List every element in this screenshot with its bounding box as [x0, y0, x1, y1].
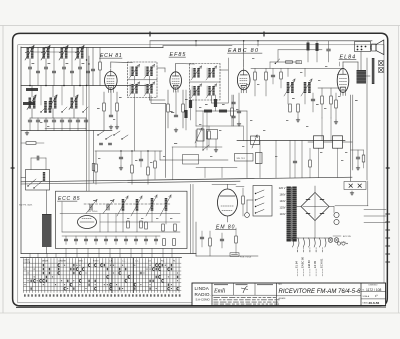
coil L6 oscillator: [50, 98, 53, 109]
resistor R8 under ECH81: [116, 103, 119, 111]
potentiometer P1 volume: [251, 136, 260, 145]
trimmer capacitor under L2: [44, 66, 47, 68]
svg-text:SW. FS. 302/1: SW. FS. 302/1: [19, 205, 33, 207]
switch box SW 75/1: [235, 154, 254, 162]
wire left vertical bus: [20, 47, 22, 254]
wire vertical x190 long: [190, 184, 192, 253]
resistor R29 top drop B: [316, 43, 319, 51]
wire dipole leads: [30, 158, 32, 170]
wire rail y88 right: [318, 87, 340, 89]
svg-text:EM 80: EM 80: [307, 260, 311, 268]
IF T1 winding: [146, 67, 148, 77]
wire IF1 internal links: [134, 76, 136, 84]
terminal box X right A: [379, 61, 384, 66]
resistor R27 y62: [286, 61, 293, 63]
border tick marks: [149, 32, 151, 37]
resistor R18: [289, 104, 292, 112]
resistor R21 dark horizontal: [204, 110, 212, 113]
svg-text:110V: 110V: [280, 212, 286, 216]
ratio detector coil La: [287, 82, 290, 93]
title underline rule: [277, 295, 362, 297]
bridge diode marks: [306, 199, 310, 201]
svg-text:26-6-56: 26-6-56: [369, 301, 380, 305]
terminal strip box: [344, 182, 366, 190]
resistor R3: [99, 62, 102, 70]
svg-text:160V: 160V: [279, 193, 285, 197]
wire EF85 anode to IF2: [175, 64, 177, 70]
mains transformer T4 secondary: [292, 187, 296, 242]
cluster pot x200: [197, 129, 204, 141]
svg-text:DISEGNO: DISEGNO: [369, 284, 378, 286]
speaker LS1: [372, 44, 377, 51]
wire bridge output down: [314, 221, 316, 239]
wire drop x318 x337 to chassis: [318, 148, 320, 177]
svg-text:FS. 75/9-6: FS. 75/9-6: [88, 211, 98, 213]
tube V5 ECC85: [78, 216, 97, 229]
wire rail y85: [21, 85, 152, 87]
wire chassis rail A: [21, 177, 352, 182]
terminal X pair: [349, 184, 352, 187]
capacitor C71 det: [271, 74, 274, 76]
IF T1 divider: [128, 79, 158, 81]
wire x207 vertical: [206, 111, 208, 150]
svg-text:ECC 85: ECC 85: [343, 236, 351, 238]
shield box mid right: [183, 155, 199, 165]
switch cluster mid: [98, 131, 104, 135]
switch contact marks: [43, 264, 44, 266]
contact pair L7: [83, 107, 88, 112]
wire rail y151: [95, 150, 162, 152]
coil L10 FM: [122, 199, 125, 211]
wire bridge output up: [314, 186, 316, 193]
mains transformer T4 primary: [287, 187, 291, 242]
svg-text:ECH 81: ECH 81: [319, 258, 323, 268]
svg-text:SW. 75/1: SW. 75/1: [237, 158, 246, 160]
wire drops AF: [246, 141, 248, 178]
resistor R62 EM80 area: [235, 236, 238, 243]
coil L7 oscillator: [71, 98, 74, 109]
value specks EF85: [170, 111, 173, 112]
wire transformer to bridge: [297, 206, 301, 208]
svg-text:125V: 125V: [279, 206, 285, 210]
wire rail y130: [21, 130, 112, 132]
wire IF2 out: [211, 96, 213, 104]
wire y150 stub: [351, 149, 364, 151]
padder capacitor: [36, 119, 39, 121]
resistor R45: [154, 161, 157, 168]
wire FM rail y222: [100, 221, 180, 223]
svg-text:220 V: 220 V: [279, 186, 286, 190]
capacitor column C21: [232, 101, 235, 103]
resistor R2: [23, 102, 35, 105]
ground EF85: [175, 128, 177, 130]
resistor R23: [208, 131, 211, 139]
capacitor C73: [293, 160, 296, 162]
ground under terminal box: [351, 191, 353, 193]
svg-text:AFFARE: AFFARE: [279, 297, 287, 300]
wire feedback vertical pair: [350, 95, 352, 181]
wire x270 stub: [269, 62, 271, 68]
terminal box X right B: [379, 68, 384, 73]
heater loops: [293, 238, 294, 247]
capacitor C62 EM80 area: [200, 236, 203, 238]
wire osc coil leads: [46, 190, 48, 214]
resistor R33 EL84 cathode: [335, 100, 338, 108]
wire jumpers between antenna coils: [33, 51, 43, 53]
output transformer T3 primary dark: [357, 70, 367, 84]
wire EABC grid vertical: [228, 58, 230, 103]
title block outline: [192, 283, 386, 306]
resistor R4 left column: [26, 142, 36, 145]
heater dashed leads: [297, 248, 299, 253]
resistor R54: [140, 221, 143, 228]
svg-text:RICEVITORE FM-AM 76/4-5-6: RICEVITORE FM-AM 76/4-5-6: [279, 289, 362, 295]
resistor R61 EM80: [209, 238, 212, 246]
padder capacitor: [60, 119, 63, 121]
wire vertical x190: [190, 90, 192, 120]
svg-text:C.C.: C.C.: [135, 260, 139, 262]
capacitor pair mid: [100, 142, 103, 144]
wire y184 extension: [212, 183, 236, 185]
small box B1: [207, 130, 218, 140]
svg-text:S.A-COMO: S.A-COMO: [196, 298, 211, 302]
padder capacitor: [52, 119, 55, 121]
transformer core lines: [290, 187, 292, 241]
wire x196 vertical: [195, 90, 197, 126]
title block header cells: [233, 283, 235, 295]
IF T1 winding: [146, 84, 148, 94]
second trimmer L3: [70, 70, 73, 72]
wire rail jog to B+: [162, 46, 164, 48]
coil L4 antenna: [77, 48, 80, 59]
IF T2 winding: [208, 68, 210, 78]
wire drops from top rail: [195, 41, 197, 46]
junction dots rail151: [120, 150, 121, 151]
stray specks right mid: [250, 119, 252, 122]
svg-text:EABC 80: EABC 80: [301, 256, 305, 268]
resistor R10 EF85 cathode: [167, 104, 170, 112]
wire FM verticals: [99, 214, 101, 233]
capacitor C61 EM80: [220, 238, 223, 240]
capacitor C5: [91, 68, 94, 70]
pilot lamps: [328, 238, 333, 243]
trimmer capacitor under L3: [62, 66, 65, 68]
resistor R19: [297, 104, 300, 112]
coil L5 oscillator: [29, 98, 32, 109]
svg-text:TIPO: TIPO: [278, 284, 283, 286]
resistor R1: [26, 88, 38, 91]
svg-text:140V: 140V: [279, 199, 285, 203]
wire EM80 area: [195, 222, 197, 256]
tuning gang C50: [89, 204, 91, 210]
scan page edge right: [398, 26, 400, 314]
ground C40: [120, 166, 122, 168]
sheet inner frame: [18, 45, 384, 303]
capacitor C40: [119, 156, 122, 158]
resistor R53: [127, 221, 130, 228]
IF T2 winding: [193, 86, 195, 96]
capacitor C60: [36, 156, 38, 160]
mains plug: [245, 213, 250, 218]
wire y160 link: [159, 151, 161, 160]
header micro labels: [214, 284, 228, 285]
resistor R51: [174, 224, 177, 231]
resistor R25 dark: [189, 100, 192, 108]
wire drops y167: [204, 168, 206, 178]
wire right edge vertical: [366, 58, 368, 180]
wire x203 vertical: [202, 111, 204, 150]
wire y147 right stub: [172, 146, 196, 148]
resistor R28 top drop A: [307, 43, 310, 51]
speck left col: [40, 121, 42, 124]
padder capacitor: [84, 119, 87, 121]
resistor R20 dark: [214, 99, 217, 107]
svg-text:SCALA: SCALA: [363, 295, 370, 298]
wire y143 left: [21, 142, 26, 144]
value specks ECH81: [119, 97, 122, 98]
coil L2 antenna: [43, 48, 46, 59]
value label near L3: [66, 63, 69, 64]
ground EABC80: [238, 122, 240, 124]
value specks EL84: [338, 95, 340, 98]
capacitor C41: [139, 158, 142, 160]
IF T2 winding: [193, 68, 195, 78]
value specks detector: [292, 98, 295, 99]
output transformer terminal box: [355, 42, 371, 52]
wire IF1 out to EF85: [149, 94, 151, 101]
coil dark left column: [44, 101, 47, 113]
switch bank horizontal rows: [24, 262, 182, 264]
ground detector: [297, 118, 299, 120]
sheet outer border: [13, 33, 388, 306]
wire mid verticals: [93, 131, 95, 184]
tube V2 EF85: [170, 72, 182, 89]
wire detector links: [287, 68, 289, 76]
wire x172 vertical: [172, 147, 174, 180]
wire ECH81 anode to IF1: [110, 62, 112, 68]
IF T1 winding: [131, 67, 133, 77]
padder capacitor: [76, 119, 79, 121]
heater winding rail: [290, 237, 332, 239]
padder capacitor: [28, 119, 31, 121]
wire vertical x196b: [195, 130, 197, 147]
tube V1 ECH81: [105, 72, 118, 90]
wire x339 EL84 grid: [339, 62, 341, 66]
right border tick marks: [386, 213, 390, 215]
contact pair L5: [41, 107, 46, 112]
wire top right links: [278, 49, 322, 51]
resistor R55 bottom: [163, 239, 166, 246]
logo box LINDA RADIO: [211, 283, 213, 306]
wire rail y45.7: [163, 45, 232, 47]
wire row y118: [30, 117, 86, 119]
wires grid to schematic: [29, 254, 31, 258]
wire vertical x193 long: [192, 184, 194, 253]
ground left front end: [26, 131, 28, 133]
wire y62 segment: [270, 61, 300, 63]
resistor R52: [145, 222, 148, 229]
wire ECC85 stub: [333, 235, 341, 237]
wire rail y68 detector: [251, 67, 344, 69]
capacitor C15: [237, 110, 240, 112]
wire tone to EL84: [343, 141, 353, 143]
capacitor C29 top right: [327, 48, 331, 50]
wire rail y167: [196, 167, 237, 169]
ground AVC: [215, 148, 217, 150]
wire row y128 right: [45, 128, 86, 130]
wire x243 link: [243, 126, 245, 141]
resistor R24 dark: [184, 110, 187, 118]
svg-text:FONO: FONO: [93, 260, 99, 262]
wire grid top rail: [21, 257, 182, 259]
resistor R7 under ECH81: [103, 103, 106, 111]
trimmer capacitor under L1: [28, 66, 31, 68]
wire vertical x186: [185, 90, 187, 130]
ground R33: [335, 120, 337, 122]
capacitor C33: [356, 156, 359, 158]
coil L11 FM: [136, 199, 139, 211]
svg-text:Emli: Emli: [213, 289, 226, 295]
wire y126 segment: [196, 125, 243, 127]
wire EL84 anode to transformer: [342, 62, 344, 66]
IF T2 divider: [190, 81, 221, 83]
switch contacts in box: [28, 179, 36, 186]
wire chassis rail B: [21, 181, 240, 184]
ground C33: [357, 166, 359, 168]
resistor R41: [95, 164, 98, 172]
output terminal enclosure: [335, 205, 368, 207]
oscillator coil L20 dark ladder: [42, 214, 52, 247]
fine print rows: [214, 296, 220, 299]
capacitor C22 tone box A: [314, 136, 324, 148]
tube V6 EM80: [218, 189, 238, 216]
scan page edge top: [0, 25, 400, 27]
wire mains input: [247, 199, 253, 201]
resistor R72 det: [280, 72, 283, 79]
wire IF1 bottom to AGC: [134, 94, 136, 152]
wire x247 drop: [246, 111, 248, 141]
svg-text:FIL: FIL: [173, 260, 176, 262]
IF T2 winding: [208, 86, 210, 96]
indicator circles ECC85: [337, 242, 340, 245]
sheet border bottom shadow: [16, 306, 386, 308]
wire EABC80 anode up: [243, 60, 245, 67]
wire y147 segment: [196, 146, 222, 148]
approval mark: [241, 286, 248, 293]
resistor R31 right column: [321, 96, 324, 104]
contact pair L6: [62, 107, 67, 112]
grid bottom number row: [24, 294, 26, 296]
switch contact y60: [275, 59, 280, 64]
svg-text:GIRO: GIRO: [78, 260, 83, 262]
FM tuner unit box: [56, 191, 188, 248]
resistor R42: [131, 165, 134, 173]
field coil hatched bar: [372, 58, 375, 84]
wire rail y111: [196, 110, 247, 112]
second trimmer L1: [36, 70, 39, 72]
wire pickup stub: [236, 186, 244, 188]
capacitor C19: [311, 98, 314, 100]
wire FM box internals: [62, 231, 180, 233]
svg-text:FUS. 75/3-6: FUS. 75/3-6: [240, 256, 252, 258]
IF T1 winding: [131, 84, 133, 94]
fuse F1: [230, 253, 239, 257]
value label near L1: [32, 63, 35, 64]
resistor R17: [265, 72, 268, 80]
coil L12 FM: [151, 198, 154, 211]
resistor R32 right column: [330, 96, 333, 104]
capacitor C9: [109, 114, 112, 116]
coil L1 antenna: [27, 48, 30, 59]
wire drop x322 x331: [321, 118, 323, 141]
padder capacitor: [68, 119, 71, 121]
ground R8: [116, 125, 118, 127]
svg-text:LINDA: LINDA: [195, 286, 210, 291]
wire AF rail y140: [237, 140, 345, 142]
svg-text:F.M.: F.M.: [161, 260, 165, 262]
tube V4 EL84: [337, 69, 349, 93]
scan page edge bottom: [0, 312, 400, 314]
coil L3 antenna: [61, 48, 64, 59]
wire step from IF2 bottom: [151, 96, 165, 104]
resistor R73: [309, 160, 312, 167]
drawing number box: [360, 283, 362, 306]
wire bottom rail y253: [21, 253, 196, 255]
padder capacitor: [44, 119, 47, 121]
value label near L2: [48, 63, 51, 64]
wire B+ top rail: [150, 40, 372, 42]
wire x150 drop: [149, 41, 151, 48]
wire transformer to terminal box: [360, 52, 362, 71]
potentiometer P2: [256, 153, 263, 164]
resistor R56 bottom: [173, 239, 176, 246]
svg-text:EL 84: EL 84: [295, 261, 299, 268]
junction dots front end: [29, 47, 31, 49]
resistor R26 y62 box: [296, 61, 302, 64]
trimmer capacitor under L4: [78, 66, 81, 68]
svg-text:LUNGHE: LUNGHE: [58, 260, 67, 262]
ratio detector coil Lb: [304, 82, 307, 93]
svg-text:1172 / 108: 1172 / 108: [366, 288, 382, 292]
capacitors bottom of FM box: [64, 238, 67, 240]
value label near L4: [82, 63, 85, 64]
tube V3 EABC80: [237, 70, 250, 90]
wire speaker leads: [371, 45, 372, 47]
tuning gang C51: [106, 204, 108, 210]
second trimmer L2: [52, 70, 55, 72]
switch bank S1 grid verticals: [23, 259, 25, 293]
IF transformer T2 can outline: [190, 64, 221, 101]
coil in dipole box: [43, 172, 45, 181]
FM dipole input box: [26, 170, 50, 191]
switch contact AVC: [203, 145, 209, 150]
resistor R44 on x93: [92, 164, 95, 171]
wire right heater lines: [364, 209, 386, 211]
resistor R50: [162, 224, 165, 231]
resistor R22 dark horizontal: [219, 110, 227, 113]
ground ECH81 cathode: [110, 125, 112, 127]
scan page edge left: [2, 26, 4, 314]
svg-text:EF 85: EF 85: [313, 260, 317, 268]
label speck 5.6k: [171, 112, 174, 113]
resistor R11 EF85 screen: [182, 104, 185, 112]
resistor R34: [362, 155, 365, 162]
svg-text:C.M.: C.M.: [109, 260, 113, 262]
wire top rail left section: [21, 47, 163, 49]
IF transformer T1 can outline: [128, 62, 158, 98]
value specks AVC: [205, 104, 208, 105]
value specks mid: [98, 157, 100, 160]
